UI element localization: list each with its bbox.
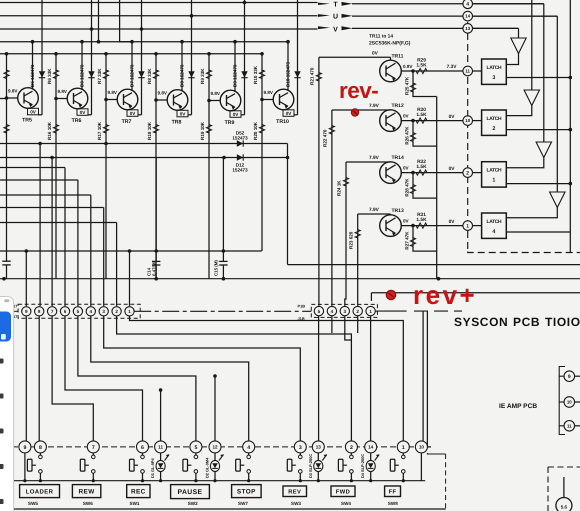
wire stair line 7 — [0, 222, 117, 224]
svg-text:R24 1K: R24 1K — [337, 180, 342, 196]
svg-text:R9 33K: R9 33K — [200, 68, 205, 84]
resistor R29 1.5K — [416, 68, 427, 73]
transistor TR12 — [380, 110, 402, 132]
node preamp pin 10 — [575, 401, 580, 403]
svg-text:0V: 0V — [449, 219, 456, 225]
wire bracket to preamp pins — [559, 367, 565, 435]
wire collector TR8 — [181, 42, 183, 91]
resistor R23 620 feed to TR13 — [357, 214, 359, 306]
svg-text:TR13: TR13 — [392, 208, 404, 214]
wire TR9/TR10 emitter drop — [287, 144, 289, 265]
node pin 11 — [463, 66, 473, 76]
svg-text:1.5K: 1.5K — [416, 164, 427, 170]
wire feed jog to TR7 collector — [120, 0, 132, 42]
node connector P17 pin 7 — [47, 307, 56, 316]
svg-text:D1 GL-9P4: D1 GL-9P4 — [150, 457, 155, 478]
wire pin3 riser — [103, 208, 105, 307]
wire dashed connector line vertical — [467, 0, 469, 252]
label box REW — [72, 485, 100, 498]
transistor TR14 — [380, 162, 402, 184]
label box FF — [385, 486, 401, 497]
wire switch9 drop — [24, 453, 26, 481]
resistor R30 1.5K — [416, 118, 427, 123]
resistor R32 1.5K — [416, 170, 427, 175]
wire base line TR10 — [261, 54, 263, 251]
label 0V box TR10 — [283, 110, 294, 117]
red annotation dot rev- — [351, 109, 358, 116]
svg-text:5: 5 — [318, 309, 321, 314]
wire diode to emitter TR10 — [294, 114, 298, 116]
wire P1B pin3 stub — [345, 316, 352, 340]
svg-text:6: 6 — [64, 309, 67, 314]
svg-text:LATCH: LATCH — [487, 116, 502, 122]
wire collector TR10 — [287, 42, 289, 91]
svg-text:R21 470: R21 470 — [310, 67, 315, 85]
svg-text:0V: 0V — [30, 110, 37, 115]
wire base to TR6 — [56, 98, 67, 100]
svg-text:13: 13 — [465, 26, 470, 31]
wire pin2 to LATCH1 — [473, 172, 482, 174]
diode D6 152473 — [91, 0, 93, 115]
node switch-row pin 9 — [19, 441, 31, 453]
svg-text:FF: FF — [389, 489, 397, 495]
svg-text:R27 47K: R27 47K — [405, 231, 410, 250]
svg-text:D3 SLP-260C: D3 SLP-260C — [308, 454, 313, 478]
svg-text:9.8V: 9.8V — [264, 90, 274, 95]
wire switch feed from x103 — [104, 316, 301, 441]
connector P17/J17 outline — [18, 304, 140, 318]
svg-text:14: 14 — [368, 445, 374, 450]
UI toolbar selected tool (blue) — [0, 312, 11, 342]
svg-text:3: 3 — [344, 309, 347, 314]
svg-text:9.8V: 9.8V — [8, 89, 18, 94]
node base junction TR10 — [260, 98, 264, 102]
svg-text:7.9V: 7.9V — [369, 207, 380, 213]
capacitor C14 0.47(M) — [155, 158, 157, 262]
diode D52 152473 — [237, 140, 243, 146]
switch SW5 LOADER — [39, 453, 41, 455]
wire switch10 feed pair — [422, 312, 424, 441]
node connector P17 pin 9 — [22, 307, 31, 316]
resistor R21 470 feed to TR11 — [318, 57, 320, 306]
label 0V box TR7 — [127, 110, 138, 117]
svg-text:4: 4 — [492, 229, 495, 235]
label box FWD — [331, 486, 355, 497]
wire switch enclosure bottom — [12, 508, 446, 510]
svg-text:R23 620: R23 620 — [348, 231, 353, 249]
resistor R7 33K on base line of TR7 — [103, 70, 108, 79]
wire stair line 4 — [0, 179, 78, 181]
UI toolbar panel — [0, 297, 14, 511]
svg-text:0V: 0V — [80, 110, 87, 115]
wire collector TR5 — [32, 42, 34, 89]
svg-text:9: 9 — [23, 445, 26, 451]
node switch-row pin 11 — [155, 441, 167, 453]
wire dash-dot link P17 to P1B — [134, 310, 311, 312]
wire diode to emitter TR8 — [188, 114, 192, 116]
svg-text:R7 33K: R7 33K — [97, 68, 102, 84]
UI toolbar icon 2 — [0, 394, 4, 399]
svg-text:SW1: SW1 — [130, 501, 140, 506]
svg-text:8: 8 — [38, 309, 41, 314]
wire pin9 riser — [25, 251, 27, 306]
wire LED14 feed — [370, 316, 372, 441]
wire pin2 riser — [116, 223, 118, 307]
wire base to TR9 — [209, 100, 220, 102]
node switch-row pin 4 — [243, 441, 255, 453]
wire LATCH1 output — [506, 183, 570, 185]
wire stair line 6 — [0, 207, 104, 209]
node base junction TR9 — [207, 99, 211, 103]
resistor R8 33K on base line of TR8 — [153, 70, 158, 79]
resistor R10 33K on base line of TR10 — [259, 70, 264, 79]
wire base line TR8 — [155, 54, 157, 279]
svg-text:2: 2 — [115, 309, 118, 314]
transistor TR6 — [67, 88, 88, 109]
diode D7 152473 — [141, 0, 143, 115]
svg-text:D9 152473: D9 152473 — [232, 64, 237, 87]
svg-text:1: 1 — [369, 309, 372, 314]
wire stair line 1 — [0, 143, 288, 145]
svg-text:R18 10K: R18 10K — [147, 121, 152, 140]
svg-text:0.8V: 0.8V — [403, 64, 413, 69]
svg-text:5.6: 5.6 — [561, 505, 568, 510]
diode D9 152473 — [244, 0, 246, 115]
svg-text:LATCH: LATCH — [487, 219, 502, 225]
node preamp pin 9 — [575, 375, 580, 377]
svg-text:4: 4 — [331, 309, 334, 314]
node switch-row pin 1 — [397, 441, 409, 453]
wire LATCH2 output — [506, 129, 570, 131]
label 0V box TR6 — [77, 109, 88, 116]
svg-text:1: 1 — [402, 445, 405, 451]
svg-text:9.8V: 9.8V — [211, 91, 221, 96]
latch U4 LATCH 4 — [482, 213, 507, 238]
svg-text:REV: REV — [288, 489, 301, 495]
svg-text:5: 5 — [77, 309, 80, 314]
svg-text:TR11 to 14: TR11 to 14 — [369, 34, 393, 40]
node connector P17 pin 5 — [73, 307, 82, 316]
latch U3 LATCH 3 — [482, 59, 507, 84]
svg-text:4: 4 — [247, 445, 250, 451]
resistor R24 1K feed to TR14 — [345, 162, 346, 306]
node pin 2 — [463, 168, 473, 178]
svg-text:D6 152473: D6 152473 — [79, 64, 84, 87]
diode D8 152473 — [191, 0, 193, 115]
node connector P1B pin 3 — [340, 306, 349, 315]
wire LATCH4 output — [506, 231, 570, 233]
capacitor C15 (M) — [222, 158, 224, 262]
svg-text:V: V — [333, 26, 338, 33]
transistor TR5 — [18, 88, 39, 109]
net tag T — [318, 3, 330, 5]
transistor next section — [563, 477, 565, 497]
wire switch feed from x39 — [38, 316, 40, 441]
wire top bus U (to pin 14) — [0, 15, 318, 17]
resistor R16 10K below base of TR6 — [53, 125, 58, 134]
wire base to TR8 — [156, 99, 167, 101]
node switch-row pin 13 — [312, 441, 324, 453]
resistor R25 47K — [413, 71, 437, 97]
svg-text:3: 3 — [102, 309, 105, 314]
wire stair line 8 (to TR10 base) — [0, 250, 262, 252]
wire pin7 riser — [51, 158, 53, 307]
wire pin4 riser — [90, 195, 92, 306]
LED D1 — [160, 453, 162, 461]
svg-text:SW8: SW8 — [388, 501, 398, 506]
svg-text:3: 3 — [492, 75, 495, 81]
svg-text:TR11: TR11 — [392, 54, 404, 60]
wire base rail — [0, 53, 263, 55]
node connector P1B pin 2 — [353, 306, 362, 315]
wire stair line 3 — [0, 167, 65, 169]
buffer triangle for LATCH1 — [543, 4, 545, 142]
svg-text:0V: 0V — [403, 165, 410, 170]
resistor R18 10K below base of TR8 — [153, 125, 158, 134]
svg-text:D4 SLP-260C: D4 SLP-260C — [360, 454, 365, 478]
dashed box next section — [548, 466, 580, 468]
svg-text:7.3V: 7.3V — [447, 64, 458, 70]
svg-text:TR6: TR6 — [72, 118, 82, 124]
svg-text:12: 12 — [212, 445, 218, 450]
svg-text:R8 33K: R8 33K — [147, 68, 152, 84]
wire emitter line TR13 — [401, 225, 463, 227]
wire pin4 to corner — [473, 3, 544, 5]
svg-text:SW6: SW6 — [83, 501, 93, 506]
svg-text:R22 470: R22 470 — [323, 129, 328, 147]
svg-text:7: 7 — [92, 445, 95, 451]
svg-text:T: T — [333, 2, 338, 9]
wire stair line 2 — [0, 157, 288, 159]
wire pin1 riser — [129, 251, 131, 306]
wire switch common rail — [12, 480, 425, 482]
wire TR14 top feed — [346, 161, 391, 163]
transistor TR10 — [273, 89, 294, 110]
label 0V box TR9 — [230, 111, 241, 118]
wire switch feed from x77 — [78, 316, 196, 441]
svg-text:0V: 0V — [372, 51, 379, 57]
resistor R17 10K below base of TR7 — [103, 125, 108, 134]
diode D5 152473 — [41, 0, 43, 115]
svg-text:2: 2 — [492, 126, 495, 132]
transistor TR13 — [380, 215, 402, 237]
wire pin6 riser — [64, 168, 66, 307]
svg-text:P1B: P1B — [298, 304, 306, 309]
svg-text:9: 9 — [568, 374, 571, 380]
wire collector rail — [0, 41, 288, 43]
wire base line TR9 — [208, 54, 210, 279]
svg-text:D5 152473: D5 152473 — [30, 64, 35, 87]
svg-text:TR5: TR5 — [22, 118, 32, 124]
wire diode to emitter TR5 — [38, 114, 42, 116]
svg-text:C15 (M): C15 (M) — [214, 260, 219, 276]
wire right bus vertical — [569, 0, 571, 253]
buffer triangle for LATCH2 — [531, 0, 533, 90]
label box STOP — [232, 485, 262, 498]
svg-text:FWD: FWD — [336, 489, 350, 495]
resistor R6 33K on base line of TR6 — [53, 70, 58, 79]
svg-text:152473: 152473 — [232, 168, 248, 173]
svg-text:6: 6 — [141, 445, 144, 451]
label box LOADER — [20, 485, 60, 498]
wire bus C (rev+ line) — [371, 292, 580, 294]
svg-text:4: 4 — [466, 2, 469, 8]
svg-text:TR8: TR8 — [172, 120, 182, 126]
svg-text:7.9V: 7.9V — [369, 103, 380, 109]
node pin 13 — [463, 24, 473, 34]
label box REC — [127, 485, 150, 498]
wire P1B to SYSCON boundary — [375, 310, 406, 312]
label box REV — [283, 486, 307, 497]
wire left edge feed — [0, 98, 7, 100]
svg-text:0V: 0V — [130, 111, 137, 116]
node switch-row pin 10 — [415, 441, 427, 453]
resistor R15 10K below base of TR5 — [4, 125, 9, 134]
switch SW8 FF — [402, 453, 404, 455]
svg-text:U: U — [333, 14, 338, 21]
svg-text:SW7: SW7 — [238, 501, 248, 506]
wire TR13 top feed — [358, 213, 391, 215]
svg-text:1.5K: 1.5K — [416, 112, 427, 118]
resistor R27 47K — [413, 226, 437, 252]
wire pin11 to LATCH3 — [473, 70, 482, 72]
svg-text:9.8V: 9.8V — [58, 89, 68, 94]
wire switch feed from x26 — [25, 316, 27, 441]
node pin 14 — [463, 11, 473, 21]
UI toolbar icon 4 — [0, 464, 4, 469]
wire top bus T (to pin 4) — [0, 2, 318, 4]
svg-text:2: 2 — [356, 309, 359, 314]
svg-text:1.5K: 1.5K — [416, 217, 427, 223]
wire pin5 riser — [77, 180, 79, 306]
svg-text:R16 10K: R16 10K — [47, 121, 52, 140]
svg-text:1.5K: 1.5K — [416, 62, 427, 68]
svg-text:10: 10 — [465, 118, 470, 123]
resistor R26 47K — [413, 121, 437, 147]
latch U2 LATCH 2 — [482, 110, 507, 135]
transistor TR7 — [117, 89, 138, 110]
label box PAUSE — [171, 485, 210, 499]
capacitor C13 at left edge — [4, 261, 9, 265]
svg-text:9.8V: 9.8V — [158, 91, 168, 96]
resistor R28 47K — [413, 173, 437, 199]
svg-text:R10 33K: R10 33K — [253, 65, 258, 84]
switch SW7 STOP — [248, 453, 250, 455]
wire stair line 5 — [0, 194, 91, 196]
svg-text:2: 2 — [466, 170, 469, 176]
wire pin13 to corner — [473, 27, 519, 29]
svg-text:LATCH: LATCH — [487, 65, 502, 71]
wire 47K common rail — [436, 97, 438, 279]
node connector P17 pin 6 — [60, 307, 69, 316]
wire emitter line TR12 — [401, 120, 463, 122]
node switch-row pin 14 — [365, 441, 377, 453]
wire LED13 feed — [318, 316, 320, 441]
wire LED12 feed — [214, 376, 216, 441]
transistor TR11 — [380, 60, 402, 82]
transistor TR8 — [167, 90, 188, 111]
svg-text:1: 1 — [492, 178, 495, 184]
wire diode to emitter TR6 — [88, 114, 92, 116]
node preamp pin 11 — [575, 425, 580, 427]
svg-text:STOP: STOP — [237, 488, 256, 495]
red annotation dot rev+ — [386, 290, 395, 299]
wire bus B — [0, 278, 580, 280]
wire pin8 riser — [39, 144, 41, 307]
node pin 10 — [463, 116, 473, 126]
switch SW6 REW — [92, 453, 94, 455]
wire base to TR10 — [262, 99, 273, 101]
node switch-row pin 12 — [209, 441, 221, 453]
svg-text:9.8V: 9.8V — [108, 90, 118, 95]
UI toolbar icon 3 — [0, 429, 4, 434]
switch SW1 REC — [142, 453, 144, 455]
node pin 4 — [463, 0, 473, 9]
wire switch enclosure dashed right — [445, 454, 447, 509]
LED D3 SLP-260C — [317, 453, 319, 461]
wire pin10 to LATCH2 — [473, 120, 482, 122]
svg-text:0V: 0V — [449, 166, 456, 172]
wire diode to emitter TR9 — [241, 114, 245, 116]
wire dash-dot line through switch circles — [12, 446, 418, 448]
node connector P1B pin 5 — [314, 306, 323, 315]
wire pin14 to corner — [473, 15, 558, 17]
switch SW4 FWD — [350, 453, 352, 455]
switch SW2 PAUSE — [195, 453, 197, 455]
node connector P17 pin 8 — [35, 307, 44, 316]
svg-text:SW4: SW4 — [341, 501, 351, 506]
svg-text:0V: 0V — [233, 112, 240, 117]
wire switch feed from x116 — [117, 316, 352, 441]
net tag V — [318, 26, 330, 29]
svg-text:D10 152473: D10 152473 — [285, 62, 290, 87]
wire switch10 drop — [420, 453, 422, 481]
svg-text:9: 9 — [25, 309, 28, 314]
node base junction TR6 — [54, 97, 58, 101]
svg-text:0V: 0V — [403, 113, 410, 118]
svg-text:R26 47K: R26 47K — [405, 126, 410, 145]
wire feed stub — [98, 0, 100, 42]
node connector P1B pin 4 — [327, 306, 336, 315]
node connector P17 pin 2 — [112, 307, 121, 316]
wire dashed connector line horizontal — [468, 252, 580, 253]
wire TR12 top feed — [332, 109, 391, 111]
node switch-row pin 2 — [345, 441, 357, 453]
wire base to TR5 — [7, 97, 18, 99]
node base junction TR7 — [104, 98, 108, 102]
svg-text:SW5: SW5 — [28, 501, 38, 506]
svg-text:3: 3 — [299, 445, 302, 451]
wire base line TR5 — [6, 54, 8, 279]
svg-text:0V: 0V — [403, 218, 410, 223]
net tag U — [318, 14, 330, 17]
svg-text:SW3: SW3 — [291, 501, 301, 506]
svg-text:R20 10K: R20 10K — [253, 121, 258, 140]
node connector P1B pin 1 — [366, 306, 375, 315]
svg-text:R6 33K: R6 33K — [47, 68, 52, 84]
svg-text:10: 10 — [567, 400, 572, 405]
svg-text:R17 10K: R17 10K — [97, 121, 102, 140]
UI toolbar icon 1 — [0, 359, 4, 364]
node switch-row pin 6 — [137, 441, 149, 453]
svg-text:TR7: TR7 — [122, 119, 132, 125]
svg-text:11: 11 — [158, 445, 163, 450]
svg-text:D2 GL-9M4: D2 GL-9M4 — [205, 457, 210, 478]
UI toolbar icon 5 — [0, 499, 4, 504]
wire TR11 top feed — [319, 56, 391, 58]
wire P1B pin4 stub — [331, 316, 333, 333]
label 0V box TR8 — [177, 110, 188, 117]
